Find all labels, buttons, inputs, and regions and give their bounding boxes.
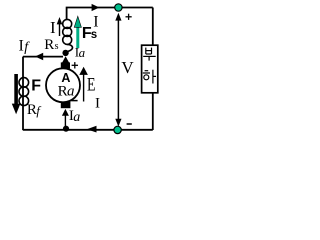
node terminal dot bottom (green) xyxy=(114,126,121,133)
voltage arrow V (double headed vertical) xyxy=(117,20,119,120)
minus sign bottom right xyxy=(127,123,132,125)
svg-text:f: f xyxy=(24,40,30,55)
svg-text:s: s xyxy=(55,41,59,52)
plus sign at armature top xyxy=(72,62,78,68)
arrowhead current I on top wire (pointing right) xyxy=(92,4,100,11)
minus sign at armature bottom xyxy=(71,100,77,102)
EMF arrow E (up, right of armature) xyxy=(83,74,85,102)
svg-text:a: a xyxy=(79,45,86,60)
node junction dot (Rs/If/armature) xyxy=(62,50,68,56)
arrowhead If (pointing left) xyxy=(35,53,43,61)
series flux arrow Fs (green, pointing up) xyxy=(76,27,79,48)
svg-text:s: s xyxy=(91,29,97,41)
wire bottom bus xyxy=(23,129,153,131)
load label 부 (hand-drawn hangul) xyxy=(143,48,156,61)
node terminal dot top (green) xyxy=(115,4,122,11)
svg-text:I: I xyxy=(19,37,24,54)
plus sign top right xyxy=(126,14,132,20)
svg-text:a: a xyxy=(73,110,80,125)
node junction dot (armature bottom on bus) xyxy=(63,126,69,132)
field coil F on left wire (3 loops) xyxy=(19,78,29,106)
armature circle A with Ra xyxy=(46,68,80,102)
svg-text:V: V xyxy=(121,58,134,77)
series coil Rs (3 loops) xyxy=(63,19,73,52)
svg-text:R: R xyxy=(44,37,54,53)
svg-text:I: I xyxy=(50,18,56,37)
armature current arrow Ia (up into node) xyxy=(62,56,69,62)
svg-text:f: f xyxy=(36,104,41,118)
wire If branch horizontal xyxy=(23,56,63,58)
load label 하 (hand-drawn hangul) xyxy=(143,70,156,84)
arrowhead current I on bottom wire (pointing left) xyxy=(87,126,97,133)
armature top brush (black square) xyxy=(61,62,70,68)
svg-text:F: F xyxy=(31,78,41,95)
wire from load box bottom to bottom-right corner xyxy=(152,93,154,130)
armature bottom brush (black square) xyxy=(61,102,71,108)
wire right side from corner down to load box xyxy=(152,8,154,46)
small current arrow I (up) beside Rs coil xyxy=(59,24,61,36)
armature current arrow Ia (up into armature bottom) xyxy=(64,115,66,126)
svg-text:a: a xyxy=(67,84,75,100)
svg-text:I: I xyxy=(95,95,100,111)
thick flux arrow F (pointing down) xyxy=(14,74,18,104)
load box (부하) xyxy=(142,45,158,93)
svg-text:E: E xyxy=(87,75,96,96)
wire left side (field branch) xyxy=(22,57,24,131)
svg-text:I: I xyxy=(93,14,98,31)
wire top bus from Rs coil top to top-right corner xyxy=(67,8,153,21)
